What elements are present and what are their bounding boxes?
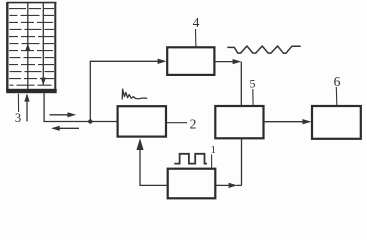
tank (liquid vessel) outline: [7, 2, 57, 91]
label 2 lead line: [166, 122, 187, 124]
upward beam arrowhead: [25, 43, 30, 51]
liquid hatching (dashed water lines): [9, 9, 54, 86]
downward echo arrowhead: [41, 78, 46, 86]
block 4 (box): [167, 47, 214, 75]
wire segment arrow tip to riser: [237, 184, 242, 186]
block 5 (box): [215, 106, 263, 138]
svg-text:2: 2: [190, 116, 197, 131]
label 3 lead line: [17, 94, 19, 112]
svg-text:3: 3: [15, 111, 21, 125]
sine output waveform sketch: [227, 46, 300, 53]
label 5 lead line: [252, 89, 254, 105]
downward echo line inside tank: [42, 3, 44, 85]
transducer up arrow below tank: [24, 93, 29, 121]
pulse generator block 1 (box): [168, 169, 216, 199]
wire from junction up to block 4 input: [90, 61, 158, 121]
svg-text:4: 4: [193, 15, 200, 30]
upward beam line inside tank: [27, 3, 29, 89]
receive direction arrow (left): [51, 126, 79, 131]
echo spike waveform sketch above block 2: [122, 89, 147, 99]
label 4 lead line: [195, 29, 197, 47]
arrowhead into block 6: [302, 119, 311, 124]
block 2 (box): [118, 106, 166, 136]
wire from transducer down and right to block 2: [44, 93, 117, 121]
arrowhead at corner toward block 5: [233, 59, 242, 64]
wire block 4 output to block 5 top: [215, 62, 242, 106]
tank bottom transducer bar: [6, 89, 57, 93]
wire block 5 to block 6: [264, 121, 304, 123]
junction node on tank-to-2 wire: [88, 119, 92, 123]
wire block 1 to block 2 trigger: [140, 149, 168, 185]
label 6 lead line: [335, 87, 338, 105]
svg-text:5: 5: [250, 77, 256, 91]
label 1 lead line: [211, 155, 213, 168]
svg-text:1: 1: [210, 144, 216, 156]
wire block 1 to block 5 bottom: [216, 139, 242, 186]
block 6 (box): [312, 106, 361, 139]
arrowhead on block 1 to block 5 wire: [229, 183, 238, 188]
svg-text:6: 6: [334, 74, 341, 89]
trigger arrowhead into block 2 bottom: [136, 138, 143, 150]
square pulse waveform sketch: [174, 154, 207, 164]
transmit direction arrow (right): [50, 112, 77, 117]
arrowhead into block 4: [158, 59, 167, 64]
